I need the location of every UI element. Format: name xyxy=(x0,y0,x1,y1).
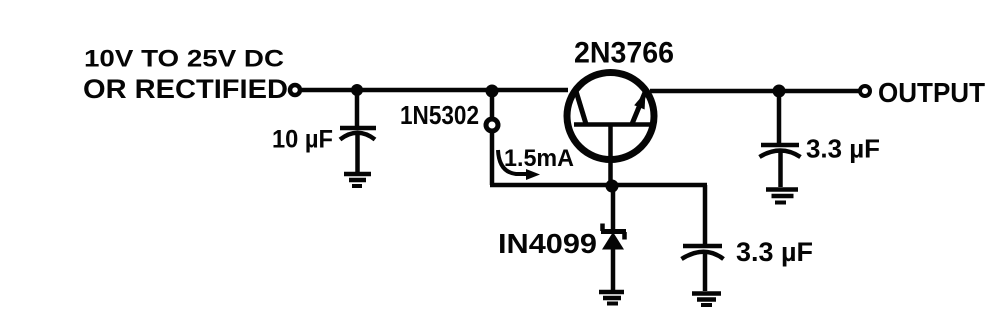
diode D1 1N5302 current regulator xyxy=(486,119,498,131)
svg-text:3.3 µF: 3.3 µF xyxy=(736,237,813,267)
svg-text:OR RECTIFIED: OR RECTIFIED xyxy=(83,74,288,104)
svg-text:10 µF: 10 µF xyxy=(272,126,333,154)
ground (under output 3.3uF) xyxy=(766,190,798,203)
zener diode D2 1N4099 xyxy=(601,224,626,250)
svg-text:1N5302: 1N5302 xyxy=(400,100,479,130)
current arrow 1.5mA xyxy=(498,150,540,180)
wire: base rail xyxy=(490,183,707,188)
capacitor C1 10uF xyxy=(340,128,376,173)
svg-text:1.5mA: 1.5mA xyxy=(504,145,574,172)
svg-text:2N3766: 2N3766 xyxy=(574,36,674,69)
wire: base lead down xyxy=(608,126,613,187)
capacitor C3 3.3uF (output) xyxy=(760,145,801,187)
wire: base junction to zener xyxy=(611,186,616,229)
wire: input to transistor collector xyxy=(302,88,568,93)
wire: down to output 3.3uF xyxy=(777,91,782,143)
input terminal xyxy=(290,85,300,95)
svg-text:3.3 µF: 3.3 µF xyxy=(806,134,880,164)
wire: bend down to 3.3uF (bottom) xyxy=(703,185,708,245)
node: junction at output cap xyxy=(773,85,786,98)
ground (under bottom 3.3uF) xyxy=(692,294,721,306)
wire: zener to ground xyxy=(611,249,616,291)
wire: branch down to 10uF capacitor xyxy=(355,90,360,127)
svg-text:IN4099: IN4099 xyxy=(498,228,597,259)
wire: current regulator to base rail xyxy=(490,132,495,185)
wire: down to current regulator diode xyxy=(490,91,495,118)
ground (under zener) xyxy=(599,292,624,304)
svg-text:OUTPUT: OUTPUT xyxy=(878,77,985,108)
node: junction at 1N5302 branch xyxy=(486,85,499,98)
output terminal xyxy=(860,86,870,96)
svg-text:10V TO 25V DC: 10V TO 25V DC xyxy=(84,46,284,73)
transistor Q1 2N3766 xyxy=(567,73,654,160)
node: junction at 10uF branch xyxy=(351,84,363,96)
capacitor C2 3.3uF (bottom) xyxy=(682,246,724,291)
wire: emitter to output xyxy=(650,89,859,94)
node: base junction xyxy=(606,180,619,193)
ground (under 10uF) xyxy=(344,174,371,186)
